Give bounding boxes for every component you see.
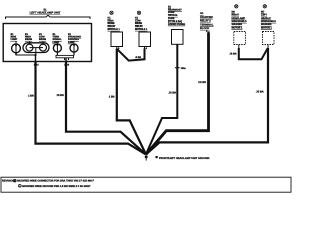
svg-text:BEAM: BEAM (39, 38, 46, 41)
terminal G2 connector arrow (206, 30, 210, 35)
fuse box F1 (172, 30, 184, 45)
svg-text:.75 BR: .75 BR (229, 53, 237, 56)
connector on wire D (175, 67, 186, 70)
svg-text:FRONT/LEFT HEADLAMP UNIT GROUN: FRONT/LEFT HEADLAMP UNIT GROUND (159, 157, 210, 160)
svg-text:MODULE 1: MODULE 1 (108, 28, 121, 31)
wires lamps to bus bar (56, 52, 58, 55)
svg-text:.75 BR: .75 BR (256, 91, 264, 94)
pin ticks below bus (64, 58, 66, 60)
svg-text:RELAY 2: RELAY 2 (200, 20, 211, 23)
svg-text:BEAM: BEAM (25, 38, 32, 41)
svg-text:2.5 BR: 2.5 BR (198, 81, 206, 84)
ground label FRONT LEFT HEADLAMP UNIT GROUND (156, 156, 210, 160)
connector arrow below box left pin 4 (34, 62, 39, 67)
M6 pin (238, 45, 240, 49)
svg-text:LAMP: LAMP (53, 41, 60, 44)
svg-text:MODULE 1: MODULE 1 (135, 28, 148, 31)
ground splice terminal (145, 155, 148, 160)
wire K2 merge into K1 wire (117, 49, 144, 61)
lamp E1 turn signal label (53, 33, 63, 44)
svg-text:150a: 150a (181, 67, 187, 70)
svg-text:.75 BR: .75 BR (56, 94, 64, 97)
svg-text:1 BR: 1 BR (109, 96, 115, 99)
washer motor M6 dashed box (234, 32, 246, 45)
svg-text:.5 BR: .5 BR (135, 56, 141, 59)
washer motor M7 dashed box (263, 32, 275, 45)
svg-text:MODIFIED WIRE CONNECTOR FOR SR: MODIFIED WIRE CONNECTOR FOR SRA THRU VIN… (17, 180, 94, 183)
lamp E1 side marker label (11, 33, 18, 41)
svg-text:MODIFIED WIRE GROUND PER 1.5 B: MODIFIED WIRE GROUND PER 1.5 BR WIRE 2 F… (22, 185, 91, 188)
M7 pin (267, 45, 269, 49)
headlamp bulb stadium E1 (23, 41, 49, 53)
wire E battery ground (146, 33, 209, 154)
wire bus to box bottom (65, 58, 67, 62)
wire A from headlamp ground x35.5 (36, 62, 146, 154)
svg-text:MOTOR 1: MOTOR 1 (261, 26, 273, 29)
relay K1 pin (117, 47, 120, 51)
svg-text:LEFT HEADLAMP UNIT: LEFT HEADLAMP UNIT (30, 11, 61, 15)
relay K1 label (108, 16, 121, 31)
wire stadium center down to junction (35, 48, 37, 55)
wire F washer ground (146, 48, 268, 154)
svg-text:G1: G1 (200, 12, 204, 15)
lamp E1 turn signal (53, 43, 61, 52)
svg-text:LAMP: LAMP (11, 38, 18, 41)
svg-text:1 BR: 1 BR (28, 94, 34, 97)
fuse box F1 label (168, 5, 186, 25)
svg-text:ADDED FUSES: ADDED FUSES (168, 23, 186, 26)
pin 1 tick (15, 53, 17, 55)
lamp E1 standing parking (70, 43, 78, 52)
ground symbol M6 column (235, 5, 238, 8)
relay K1 box (111, 32, 123, 47)
bracket over headlamp unit box (6, 15, 91, 19)
revision note 1 (13, 179, 94, 182)
washer motor M6 label (232, 10, 247, 29)
headlamp unit box E1 (3, 24, 91, 62)
headlamp high beam label (25, 33, 32, 41)
revisions box (1, 177, 291, 192)
wire C relay ground x117 (117, 49, 146, 155)
wire B from bus x66 (66, 62, 146, 154)
svg-text:BLOCK: BLOCK (200, 27, 209, 30)
wire lamp1 to stadium junction (16, 53, 35, 55)
wire junction through box bottom (35, 55, 37, 62)
node E1 header label LEFT HEADLAMP UNIT (30, 9, 61, 15)
svg-text:.75 BR: .75 BR (168, 92, 176, 95)
relay K2 box (139, 32, 151, 47)
washer motor M7 label (261, 10, 276, 29)
headlamp low beam label (39, 33, 46, 41)
wire D from fuse box (146, 44, 177, 154)
connector arrow below box right pin 9 (65, 62, 70, 67)
svg-text:STARTER/: STARTER/ (200, 16, 213, 19)
wire M6 merge into M7 wire (239, 48, 268, 59)
svg-text:TERMINAL: TERMINAL (200, 23, 214, 26)
bus bar (56, 55, 74, 57)
revision note 2 (18, 184, 90, 187)
ground symbol K1 column (110, 11, 113, 14)
lamp E1 standing parking label (68, 33, 81, 44)
relay K2 pin (145, 47, 148, 51)
ground symbol M7 column (263, 5, 266, 8)
relay K2 label (135, 16, 148, 31)
lamp E1 side marker (12, 41, 21, 53)
ground symbol K2 column (137, 11, 140, 14)
junction dot (34, 54, 36, 56)
svg-text:MOTOR 1: MOTOR 1 (232, 26, 244, 29)
terminal block G2 label (200, 12, 214, 30)
